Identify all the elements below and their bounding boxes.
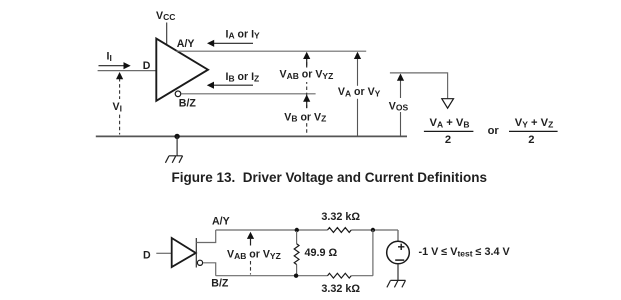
svg-text:Figure 13. Driver Voltage and: Figure 13. Driver Voltage and Current De… <box>172 170 488 185</box>
svg-text:IB or IZ: IB or IZ <box>226 71 260 83</box>
svg-text:2: 2 <box>445 134 451 146</box>
svg-text:A/Y: A/Y <box>177 38 195 50</box>
svg-text:A/Y: A/Y <box>212 216 230 228</box>
svg-text:VOS: VOS <box>389 100 409 112</box>
svg-text:VAB or VYZ: VAB or VYZ <box>227 249 281 261</box>
svg-text:VAB or VYZ: VAB or VYZ <box>280 69 334 81</box>
svg-text:D: D <box>143 250 151 262</box>
svg-text:VA or VY: VA or VY <box>338 86 381 98</box>
svg-text:B/Z: B/Z <box>211 277 229 289</box>
svg-text:-1 V ≤ Vtest ≤ 3.4 V: -1 V ≤ Vtest ≤ 3.4 V <box>419 246 511 258</box>
svg-text:49.9 Ω: 49.9 Ω <box>305 247 338 259</box>
svg-text:3.32 kΩ: 3.32 kΩ <box>321 283 360 295</box>
svg-text:II: II <box>107 51 112 63</box>
svg-text:VCC: VCC <box>156 10 175 22</box>
svg-text:or: or <box>488 125 500 137</box>
svg-text:3.32 kΩ: 3.32 kΩ <box>321 211 360 223</box>
svg-text:IA or IY: IA or IY <box>226 28 261 40</box>
svg-text:VI: VI <box>113 101 122 113</box>
svg-text:2: 2 <box>528 134 534 146</box>
svg-text:B/Z: B/Z <box>179 97 197 109</box>
svg-text:VA + VB: VA + VB <box>430 117 470 129</box>
svg-text:VB or VZ: VB or VZ <box>284 111 326 123</box>
svg-text:VY + VZ: VY + VZ <box>515 117 554 129</box>
svg-text:D: D <box>143 60 151 72</box>
